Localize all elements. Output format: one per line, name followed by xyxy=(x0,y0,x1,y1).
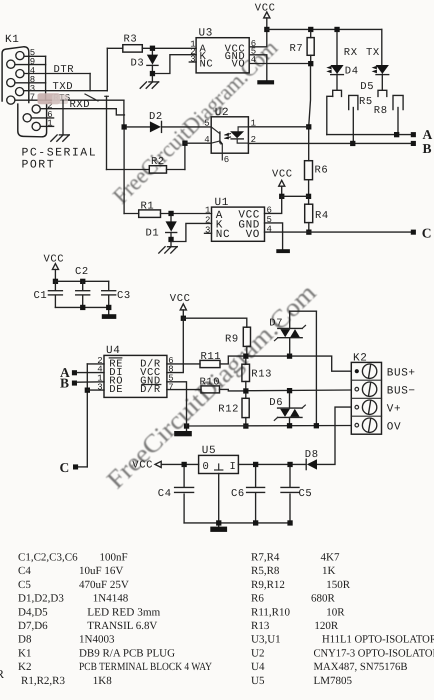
svg-text:PORT: PORT xyxy=(22,159,56,172)
K2 screw 2 xyxy=(362,382,376,396)
svg-text:5: 5 xyxy=(204,118,210,128)
K1 pin 7 circle xyxy=(7,96,15,104)
resistor R12 xyxy=(218,394,249,424)
node D1 cathode xyxy=(168,237,173,242)
terminal block K2 xyxy=(351,352,381,434)
ground bar U5 xyxy=(210,527,227,532)
regulator U5 xyxy=(199,445,239,473)
svg-text:1: 1 xyxy=(47,119,53,129)
svg-text:4K7: 4K7 xyxy=(321,552,340,564)
wire TXD pin3 row (merges with DTR jog) xyxy=(24,90,108,92)
svg-text:C5: C5 xyxy=(18,579,31,591)
wire K1 pin1 stub xyxy=(40,125,53,127)
svg-text:0: 0 xyxy=(203,461,210,473)
node R4 / C row xyxy=(306,230,311,235)
terminal A left xyxy=(72,370,77,375)
wire R7 node down to U2 pin1 and R6 xyxy=(309,66,311,160)
diode D3 xyxy=(131,51,159,71)
node BUS- at R13/R10 xyxy=(243,388,248,393)
svg-text:2: 2 xyxy=(251,135,257,145)
wire net A row xyxy=(327,134,412,136)
svg-text:U2: U2 xyxy=(251,647,264,659)
svg-text:680R: 680R xyxy=(311,593,336,605)
svg-text:R11: R11 xyxy=(201,351,222,363)
resistor R2 xyxy=(107,156,185,173)
svg-text:MAX487, SN75176B: MAX487, SN75176B xyxy=(314,661,408,673)
svg-text:BUS−: BUS− xyxy=(387,386,416,398)
svg-text:C: C xyxy=(422,225,432,240)
resistor R9 xyxy=(225,327,251,353)
power VCC for C1 C2 C3 xyxy=(44,253,65,281)
node 0V at U4 gnd xyxy=(184,423,189,428)
wire RE-DE tie vertical xyxy=(86,364,88,467)
wire D2 node down to R1 row xyxy=(123,130,125,214)
svg-text:3: 3 xyxy=(190,54,196,64)
LED D4 xyxy=(326,32,358,90)
strike mark over RTS xyxy=(85,94,98,101)
svg-text:C1: C1 xyxy=(34,290,48,302)
K2 screw 4 xyxy=(362,418,376,432)
capacitor C2 xyxy=(75,266,90,307)
svg-text:R8: R8 xyxy=(374,105,388,117)
svg-text:B: B xyxy=(60,375,69,390)
svg-text:C3: C3 xyxy=(117,290,131,302)
svg-text:C6: C6 xyxy=(231,488,245,500)
svg-text:VCC: VCC xyxy=(132,460,153,472)
svg-text:VO: VO xyxy=(231,58,245,70)
svg-text:150R: 150R xyxy=(326,579,351,591)
svg-text:VCC: VCC xyxy=(255,3,276,15)
terminal C left xyxy=(73,464,78,469)
wire TXD riser tick xyxy=(105,95,109,97)
connector K1 DB9 shell upper xyxy=(2,47,29,103)
wire D7 top drop to 0V xyxy=(315,311,317,423)
ground bar U4 xyxy=(174,431,192,436)
wire RXD jog xyxy=(116,109,124,115)
K1 pin 4 circle xyxy=(16,70,24,78)
svg-text:6: 6 xyxy=(267,205,273,215)
node 0V at R12 xyxy=(243,423,248,428)
wire ground drop from RTS row xyxy=(62,100,64,135)
wire VCC rail to R9 xyxy=(183,318,247,327)
svg-text:7: 7 xyxy=(168,382,174,392)
svg-text:R1: R1 xyxy=(141,200,155,212)
ground bar U1 xyxy=(276,249,290,253)
svg-text:D7,D6: D7,D6 xyxy=(18,620,48,632)
K1 pin 5 circle xyxy=(16,52,24,60)
power VCC top xyxy=(255,3,276,30)
svg-text:10R: 10R xyxy=(326,606,345,618)
diode D1 xyxy=(146,216,177,239)
svg-text:R6: R6 xyxy=(315,164,329,176)
wire RXD pin2 row xyxy=(40,108,116,110)
svg-text:DB9 R/A PCB PLUG: DB9 R/A PCB PLUG xyxy=(79,647,175,659)
node VCC U4 xyxy=(181,316,186,321)
ground bar C3 xyxy=(102,314,117,319)
wire U2 pin1 row xyxy=(248,126,308,128)
node R6/R4/VCC xyxy=(306,194,311,199)
svg-text:D2: D2 xyxy=(149,111,163,123)
wire U4 pin8 VCC riser xyxy=(167,318,183,372)
svg-text:U4: U4 xyxy=(106,345,120,357)
wire cap bottom rail xyxy=(55,306,108,308)
node gnd rail C6 xyxy=(253,520,258,525)
node DE junction xyxy=(85,388,90,393)
wire U3 pin4 to R7 node xyxy=(249,63,311,65)
wire VCC branch down to U1 pin6 xyxy=(265,196,282,213)
svg-text:TXD: TXD xyxy=(53,81,74,93)
opto-isolator U2 xyxy=(211,107,248,153)
chassis ground D1 xyxy=(159,242,178,253)
svg-text:RX: RX xyxy=(344,47,358,59)
svg-text:R6: R6 xyxy=(251,593,264,605)
wire VCC branch to R6/R4 node xyxy=(282,195,309,197)
wire K1 pin5 to ground bus xyxy=(24,55,45,57)
K2 screw 1 xyxy=(362,364,376,378)
svg-text:R3: R3 xyxy=(124,34,138,46)
svg-text:U5: U5 xyxy=(202,445,216,457)
wire D4 branch to A row xyxy=(327,96,333,134)
svg-text:1N4148: 1N4148 xyxy=(93,593,129,605)
svg-text:R5,R8: R5,R8 xyxy=(251,565,280,577)
wire U3 pin6 to VCC rail xyxy=(249,29,267,46)
node C4 top xyxy=(182,462,187,467)
diode D8 xyxy=(305,449,319,470)
K1 pin 3 circle xyxy=(16,88,24,96)
K2 pin1 dot xyxy=(355,369,359,373)
svg-text:R: R xyxy=(0,667,4,681)
svg-text:U3,U1: U3,U1 xyxy=(251,634,281,646)
svg-text:D6: D6 xyxy=(269,397,283,409)
power VCC output label xyxy=(132,460,198,472)
transil D6 xyxy=(269,394,305,424)
resistor R6 xyxy=(305,161,329,194)
svg-text:VCC: VCC xyxy=(170,293,191,305)
svg-text:2: 2 xyxy=(205,215,211,225)
wire K1 pin6 stub xyxy=(31,117,53,119)
svg-text:U2: U2 xyxy=(215,107,229,119)
wire RTS row down to D2 node xyxy=(123,100,125,124)
wire B to U4 RO xyxy=(77,381,104,383)
svg-text:3: 3 xyxy=(97,382,103,392)
node B/R5 xyxy=(350,141,355,146)
svg-text:D8: D8 xyxy=(18,634,32,646)
wire U4 pin5 gnd drop xyxy=(167,382,187,426)
wire U1 pin5 to ground xyxy=(265,223,283,249)
wire RTS/ground row pin7 xyxy=(15,99,124,101)
node C2 top xyxy=(80,279,85,284)
K2 pin3 dot xyxy=(355,405,359,409)
terminal C xyxy=(411,230,416,235)
node VCC rail at R7 xyxy=(308,27,313,32)
node VCC rail at D4 xyxy=(334,27,339,32)
U1 pin 3 stub xyxy=(205,232,212,234)
terminal A xyxy=(411,132,416,137)
svg-text:LM7805: LM7805 xyxy=(314,675,353,687)
svg-text:1K: 1K xyxy=(322,565,336,577)
svg-text:R13: R13 xyxy=(251,620,270,632)
K2 pin4 dot xyxy=(355,423,359,427)
svg-text:D4,D5: D4,D5 xyxy=(18,606,48,618)
node A/R8 xyxy=(394,132,399,137)
svg-text:1: 1 xyxy=(205,206,211,216)
svg-text:CNY17-3 OPTO-ISOLATOR: CNY17-3 OPTO-ISOLATOR xyxy=(314,647,434,659)
wire net C row xyxy=(265,231,412,233)
wire BUS+ row xyxy=(249,356,352,371)
wire K1 pin8 to ground bus xyxy=(15,82,45,84)
K1 pin 9 circle xyxy=(7,60,15,68)
svg-text:NC: NC xyxy=(200,58,214,70)
wire down to C terminal xyxy=(78,466,87,468)
wire DTR riser to R3 xyxy=(106,48,108,90)
resistor R8 xyxy=(374,95,403,134)
node C5 top xyxy=(287,462,292,467)
node R3/D3 junction xyxy=(150,46,155,51)
wire R2 up to U2 pin4 node xyxy=(184,143,186,169)
svg-text:VCC: VCC xyxy=(272,168,293,180)
svg-text:4: 4 xyxy=(204,135,210,145)
wire TXD column down to R2 xyxy=(106,96,108,169)
diode D2 xyxy=(127,111,211,132)
svg-text:VCC: VCC xyxy=(44,253,65,265)
svg-text:K2: K2 xyxy=(18,661,31,673)
svg-text:RXD: RXD xyxy=(70,99,91,111)
svg-text:R10: R10 xyxy=(200,377,221,389)
svg-text:VO: VO xyxy=(246,229,260,241)
D5 lower bracket xyxy=(378,90,387,96)
node 0V at D6 xyxy=(287,423,292,428)
svg-text:BUS+: BUS+ xyxy=(387,368,416,380)
K1 pin 2 circle xyxy=(32,105,40,113)
wire gnd stub below xyxy=(186,429,188,432)
svg-text:10uF 16V: 10uF 16V xyxy=(79,565,123,577)
svg-text:R2: R2 xyxy=(151,156,165,168)
wire K1 pin9 to ground bus xyxy=(15,64,45,66)
svg-text:R13: R13 xyxy=(251,368,272,380)
node 0V at D7 column xyxy=(314,423,319,428)
connector K1 DB9 shell lower xyxy=(18,103,47,136)
U2 internal phototransistor xyxy=(211,127,223,160)
svg-text:K1: K1 xyxy=(18,647,31,659)
wire V+ row to D8 xyxy=(317,407,351,464)
svg-text:PCB TERMINAL BLOCK 4 WAY: PCB TERMINAL BLOCK 4 WAY xyxy=(79,661,212,673)
node BUS- at D6 xyxy=(287,388,292,393)
svg-text:D7: D7 xyxy=(269,317,283,329)
capacitor C4 xyxy=(158,467,194,523)
node VCC branch xyxy=(279,194,284,199)
svg-text:LED RED 3mm: LED RED 3mm xyxy=(87,606,160,618)
svg-text:TRANSIL 6.8V: TRANSIL 6.8V xyxy=(87,620,157,632)
svg-text:R4: R4 xyxy=(315,210,329,222)
svg-text:U3: U3 xyxy=(199,28,213,40)
resistor R4 xyxy=(305,199,329,230)
svg-text:U4: U4 xyxy=(251,661,265,673)
svg-text:R11,R10: R11,R10 xyxy=(251,606,291,618)
svg-text:D/R: D/R xyxy=(140,384,161,396)
power VCC for U4 xyxy=(170,293,191,318)
node C1 top xyxy=(53,279,58,284)
svg-text:C4: C4 xyxy=(18,565,31,577)
svg-text:D3: D3 xyxy=(131,58,145,70)
svg-text:1N4003: 1N4003 xyxy=(79,634,115,646)
K1 pin 8 circle xyxy=(7,79,15,87)
parts list right column xyxy=(251,552,434,687)
svg-text:D4: D4 xyxy=(345,66,359,78)
svg-text:R1,R2,R3: R1,R2,R3 xyxy=(21,675,66,687)
node C2 bottom xyxy=(80,305,85,310)
node U2 pin1 / R6 / R7 xyxy=(306,124,311,129)
terminal B left xyxy=(72,381,77,386)
svg-text:K1: K1 xyxy=(5,34,19,46)
svg-text:DTR: DTR xyxy=(54,64,75,76)
svg-text:R12: R12 xyxy=(218,403,239,415)
svg-text:C1,C2,C3,C6: C1,C2,C3,C6 xyxy=(18,552,78,564)
resistor R7 xyxy=(290,32,315,61)
svg-text:R7,R4: R7,R4 xyxy=(251,552,280,564)
wire U1 K to D1 cathode xyxy=(171,223,212,241)
svg-text:R9: R9 xyxy=(225,333,239,345)
node U2 pin4 xyxy=(182,141,187,146)
parts list left column xyxy=(18,552,212,687)
svg-text:470uF 25V: 470uF 25V xyxy=(79,579,129,591)
svg-text:C4: C4 xyxy=(158,488,172,500)
transceiver U4 xyxy=(104,345,167,397)
svg-text:R9,R12: R9,R12 xyxy=(251,579,285,591)
resistor R13 xyxy=(242,359,272,388)
ground bar U3 xyxy=(257,80,274,84)
node VCC rail left xyxy=(264,27,269,32)
wire A to U4 DI xyxy=(77,372,104,374)
svg-text:R5: R5 xyxy=(359,96,373,108)
wire U3 K to D3 cathode xyxy=(155,55,196,74)
svg-text:D1,D2,D3: D1,D2,D3 xyxy=(18,593,64,605)
svg-text:B: B xyxy=(423,141,432,156)
svg-text:R7: R7 xyxy=(290,43,304,55)
resistor R10 xyxy=(167,377,243,393)
U2 internal LED xyxy=(230,127,248,143)
svg-text:1K8: 1K8 xyxy=(93,675,112,687)
node BUS+ at D7 xyxy=(287,354,292,359)
resistor R5 xyxy=(349,95,373,143)
opto-isolator U3 xyxy=(196,28,249,73)
chassis ground D3 xyxy=(140,76,159,88)
svg-text:TX: TX xyxy=(366,47,380,59)
node D2 anode xyxy=(122,124,127,129)
svg-text:120R: 120R xyxy=(314,620,339,632)
K1 pin 6 circle xyxy=(23,114,31,122)
U3 pin 3 stub xyxy=(189,61,196,63)
svg-text:I: I xyxy=(230,461,237,473)
node R1/D1 xyxy=(168,211,173,216)
wire cap top rail xyxy=(55,280,108,282)
U2 internal emission arrows xyxy=(224,133,230,140)
node BUS+ at R9/R13 xyxy=(243,354,248,359)
transil D7 xyxy=(269,311,316,353)
svg-text:V+: V+ xyxy=(387,404,401,416)
node gnd rail U5 xyxy=(216,520,221,525)
wire U2 pin4 row xyxy=(185,142,211,144)
K2 pin2 dot xyxy=(355,387,359,391)
wire 0V row xyxy=(187,425,352,428)
svg-text:U5: U5 xyxy=(251,675,265,687)
wire U5 gnd drop xyxy=(218,474,220,527)
K2 screw 3 xyxy=(362,400,376,414)
power VCC mid-right xyxy=(272,168,293,196)
svg-text:OV: OV xyxy=(387,422,401,434)
capacitor C5 xyxy=(281,467,312,523)
node C3 bottom xyxy=(106,305,111,310)
wire DTR jog down xyxy=(89,74,91,91)
capacitor C1 xyxy=(34,281,63,307)
svg-text:D5: D5 xyxy=(360,81,374,93)
svg-text:C: C xyxy=(60,460,70,475)
svg-text:U1: U1 xyxy=(215,197,229,209)
wire U4 RE row xyxy=(87,363,104,365)
svg-text:4: 4 xyxy=(267,224,273,234)
terminal B xyxy=(411,141,416,146)
capacitor C3 xyxy=(102,281,131,314)
node C6 top xyxy=(253,462,258,467)
svg-text:6: 6 xyxy=(224,155,230,165)
svg-text:NC: NC xyxy=(216,229,230,241)
wire bottom gnd rail xyxy=(184,522,290,524)
node D3 cathode junction xyxy=(150,71,155,76)
eraser smudge over RTS xyxy=(38,93,61,104)
wire ground bus vertical xyxy=(45,56,47,100)
svg-text:C5: C5 xyxy=(299,488,313,500)
resistor R3 xyxy=(107,34,196,53)
wire U5 output row xyxy=(238,463,306,465)
svg-text:H11L1 OPTO-ISOLATOR: H11L1 OPTO-ISOLATOR xyxy=(322,634,434,646)
wire VCC rail xyxy=(267,28,382,30)
resistor R1 xyxy=(124,200,211,217)
svg-text:100nF: 100nF xyxy=(100,552,128,564)
resistor R11 xyxy=(167,351,243,368)
opto-isolator U1 xyxy=(212,197,265,242)
svg-text:DE: DE xyxy=(109,384,123,396)
capacitor C6 xyxy=(231,467,265,523)
LED D5 xyxy=(360,29,389,92)
node gnd rail C5 xyxy=(287,520,292,525)
wire net B row xyxy=(248,142,411,144)
svg-text:D1: D1 xyxy=(146,227,160,239)
svg-text:C2: C2 xyxy=(75,266,89,278)
wire DTR pin4 row xyxy=(24,73,90,75)
wire U4 DE row xyxy=(87,389,104,391)
D4 lower bracket xyxy=(333,90,342,96)
wire U3 pin5 to ground xyxy=(249,55,267,81)
chassis ground K1 xyxy=(51,135,70,141)
wire BUS- row xyxy=(249,389,352,392)
node R7 bottom / U3 VO xyxy=(308,61,313,66)
K1 pin 1 circle xyxy=(32,122,40,130)
